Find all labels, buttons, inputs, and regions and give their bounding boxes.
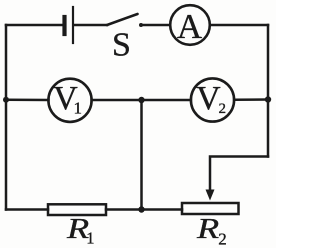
svg-text:2: 2 <box>219 101 227 117</box>
node right junction <box>265 96 271 102</box>
rheostat R2 body <box>182 203 239 214</box>
svg-text:1: 1 <box>73 99 82 118</box>
node switch contact <box>139 23 143 27</box>
battery long plate <box>72 7 74 43</box>
node left middle junction <box>3 97 9 103</box>
label V1 <box>53 80 82 118</box>
wire right vertical <box>267 25 270 157</box>
wire switch contact to ammeter <box>142 24 170 27</box>
wire top left horizontal <box>6 24 63 27</box>
wire R1 to R2 <box>106 208 182 211</box>
svg-text:V: V <box>196 80 221 117</box>
wire jog to slider <box>210 157 268 191</box>
node center junction <box>138 97 144 103</box>
voltmeter V1 circle <box>48 79 91 122</box>
resistor R1 body <box>48 204 106 215</box>
node bottom junction <box>138 206 144 212</box>
wire bottom left <box>6 208 48 211</box>
svg-text:1: 1 <box>86 229 94 248</box>
switch S blade <box>107 14 138 25</box>
label R2 <box>196 213 227 248</box>
svg-text:2: 2 <box>218 230 227 248</box>
svg-text:S: S <box>112 27 131 64</box>
label V2 <box>196 80 226 117</box>
wire middle left <box>6 98 49 101</box>
ammeter A circle <box>170 5 210 45</box>
voltmeter V2 circle <box>191 78 234 121</box>
wire left vertical <box>5 25 8 210</box>
battery short plate <box>62 17 66 34</box>
slider arrow head <box>206 190 215 201</box>
wire center vertical <box>140 100 143 210</box>
wire ammeter to top right corner <box>211 24 269 27</box>
svg-text:A: A <box>177 7 203 46</box>
svg-text:R: R <box>196 213 219 245</box>
wire V1 to V2 <box>92 99 191 102</box>
wire V2 to right <box>234 98 268 101</box>
wire battery to switch <box>74 24 107 27</box>
label R1 <box>66 213 95 247</box>
